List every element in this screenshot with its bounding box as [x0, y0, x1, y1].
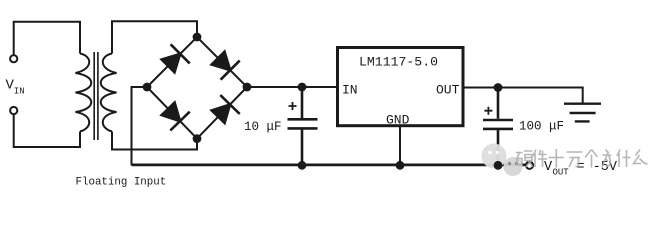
pin label IN: [342, 83, 358, 98]
watermark char 7: shen (what): [617, 150, 631, 168]
watermark char 5: ge (unit): [585, 150, 598, 168]
label V_IN: [6, 78, 25, 97]
wire: bridge left node to bottom rail: [132, 87, 148, 165]
diode (bridge top-right, cathode right node): [212, 52, 240, 80]
wire: OUT to system ground: [463, 88, 583, 104]
diode (bridge bottom-left, cathode bottom node): [162, 103, 190, 131]
wire: bottom rail: [132, 163, 526, 166]
op-amp U1: regulator LM1117-5.0 box: [338, 48, 464, 126]
svg-text:Floating Input: Floating Input: [76, 176, 167, 188]
capacitor 10uF (polarized): [288, 87, 318, 165]
svg-text:IN: IN: [342, 83, 358, 98]
plus mark of 100uF: [484, 107, 492, 115]
wire: GND pin to bottom rail: [399, 126, 401, 166]
watermark char 2: jian (piece): [533, 150, 547, 168]
watermark char 4: wan (ten thousand): [567, 152, 583, 167]
capacitor 100uF (polarized): [483, 88, 513, 166]
pin label GND: [386, 113, 410, 128]
junction: bridge right node: [243, 83, 252, 92]
ground: [564, 104, 601, 122]
wire: bridge right node to regulator IN: [247, 86, 338, 88]
svg-text:LM1117-5.0: LM1117-5.0: [359, 55, 438, 70]
pin label OUT: [436, 83, 460, 98]
junction: 10uF top: [298, 83, 307, 92]
watermark char 1: ying (hard): [516, 151, 533, 167]
svg-text:100 μF: 100 μF: [519, 120, 564, 134]
svg-text:= -5V: = -5V: [577, 160, 618, 175]
plus mark of 10uF: [289, 102, 297, 110]
diode (bridge top-left, anode left node): [162, 44, 190, 72]
diode (bridge bottom-right, cathode right node): [212, 95, 240, 123]
watermark char 3: shi (ten): [549, 149, 565, 168]
junction: 100uF bottom: [494, 161, 503, 170]
transformer secondary winding: [101, 54, 117, 132]
wire: secondary top to bridge AC top: [112, 21, 197, 53]
watermark char 6: wei (for): [602, 150, 612, 168]
wire: V_IN bottom loop: [14, 115, 80, 147]
watermark logo bubbles: [482, 144, 523, 177]
value label 10uF: [244, 120, 282, 134]
svg-text:GND: GND: [386, 113, 410, 128]
wire: bridge diamond edges: [147, 37, 247, 139]
terminal: V_OUT open circle: [526, 162, 533, 169]
junction re-stamp over watermark: [494, 161, 503, 170]
svg-text:IN: IN: [14, 87, 25, 97]
value label 100uF: [519, 120, 564, 134]
terminal: V_IN bottom: [10, 107, 17, 114]
junction: bridge bottom node: [193, 134, 202, 143]
label V_OUT = -5V: [544, 160, 618, 178]
svg-text:10 μF: 10 μF: [244, 120, 282, 134]
junction: GND at rail: [396, 161, 405, 170]
watermark char 8: me: [634, 150, 648, 164]
svg-text:OUT: OUT: [436, 83, 460, 98]
junction: bridge left node: [143, 83, 152, 92]
wire: V_IN top loop: [14, 22, 80, 55]
terminal: V_IN top: [10, 55, 17, 62]
junction: 100uF top: [494, 83, 503, 92]
label LM1117-5.0: [359, 55, 438, 70]
junction: 10uF bottom: [298, 161, 307, 170]
svg-text:OUT: OUT: [553, 168, 570, 178]
label Floating Input: [76, 176, 167, 188]
transformer core: [94, 52, 98, 140]
wire: secondary bottom to bridge AC bottom: [112, 132, 197, 150]
transformer primary winding: [76, 54, 92, 132]
junction: bridge top node: [193, 33, 202, 42]
